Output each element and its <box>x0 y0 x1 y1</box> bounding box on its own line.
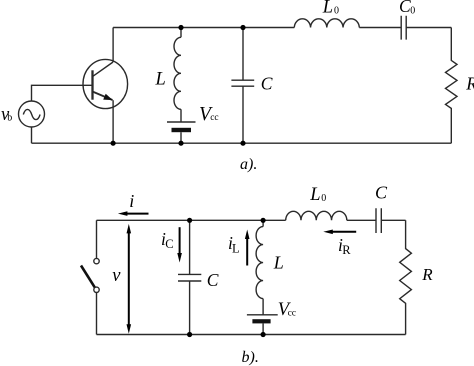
arrow iC (b) <box>179 227 181 254</box>
svg-text:C: C <box>165 237 173 251</box>
top rail left <box>113 27 294 29</box>
wire C branch top <box>242 28 244 81</box>
capacitor C0 plates <box>401 16 406 40</box>
capacitor C plates (a) <box>231 80 254 86</box>
top rail right <box>406 27 451 29</box>
svg-text:R: R <box>342 243 351 257</box>
top rail middle <box>359 27 401 29</box>
svg-text:cc: cc <box>288 308 296 318</box>
svg-text:cc: cc <box>210 113 218 123</box>
node dot bottom L (a) <box>178 141 183 146</box>
arrow v (b) double head <box>128 232 130 326</box>
svg-text:v: v <box>112 266 121 286</box>
arrow iR (b) <box>331 231 356 233</box>
top rail (b) middle <box>347 219 376 221</box>
node dot bottom C (b) <box>187 332 192 337</box>
svg-text:0: 0 <box>334 6 339 17</box>
svg-text:C: C <box>207 270 219 290</box>
wire battery to rail (b) <box>262 323 264 334</box>
arrows <box>118 211 356 333</box>
svg-text:C: C <box>261 74 273 94</box>
wire L branch (b) top <box>262 220 264 226</box>
wire C branch bottom <box>242 86 244 143</box>
inductor L (b) <box>256 227 263 299</box>
inductor L (a) <box>174 37 181 109</box>
source v_b <box>19 101 45 127</box>
node dot top L (b) <box>261 218 266 223</box>
transistor base bar <box>91 70 93 99</box>
svg-text:C: C <box>399 0 411 16</box>
node dot bottom C (a) <box>240 141 245 146</box>
svg-text:b: b <box>7 113 12 124</box>
svg-text:L: L <box>232 241 240 255</box>
capacitor C series plates (b) <box>376 208 381 233</box>
wire L to battery <box>180 109 182 122</box>
inductor L0 (a) <box>294 19 359 28</box>
svg-text:R: R <box>421 265 433 284</box>
top rail (b) left <box>97 219 286 221</box>
capacitor C plates (b) <box>178 274 201 281</box>
svg-text:a).: a). <box>240 156 257 173</box>
transistor Q1 <box>83 59 128 108</box>
svg-text:L: L <box>273 252 284 272</box>
battery Vcc thick plate (b) <box>252 319 270 323</box>
svg-text:L: L <box>155 70 166 90</box>
sine symbol in v_b <box>23 109 40 119</box>
switch upper contact <box>94 258 99 263</box>
resistor R (b) <box>400 220 412 334</box>
svg-text:0: 0 <box>321 193 326 204</box>
wire C branch (b) top <box>189 220 191 274</box>
inductor L0 (b) <box>286 211 347 220</box>
wire v_b top to base <box>32 85 93 101</box>
bottom rail (a) <box>32 142 452 144</box>
svg-text:C: C <box>375 183 388 203</box>
arrow iL (b) <box>246 238 248 266</box>
wire L to battery (b) <box>262 299 264 315</box>
svg-text:L: L <box>309 185 320 205</box>
wire switch to rail <box>96 293 98 335</box>
switch lever <box>81 266 95 288</box>
resistor R (a) <box>446 28 458 144</box>
svg-text:L: L <box>322 0 333 18</box>
svg-text:0: 0 <box>410 6 415 17</box>
wire v_b bottom to rail <box>31 127 33 143</box>
wire C branch (b) bottom <box>189 281 191 335</box>
node dot top C (a) <box>240 25 245 30</box>
collector wire <box>112 28 114 63</box>
svg-text:b).: b). <box>242 349 259 366</box>
switch lower contact <box>94 287 99 292</box>
battery Vcc thin plate (b) <box>247 314 278 316</box>
arrow i (b) <box>126 213 149 215</box>
emitter wire <box>112 100 114 143</box>
svg-text:i: i <box>129 191 134 211</box>
transistor emitter arrowhead <box>103 94 113 100</box>
bottom rail (b) <box>97 334 406 336</box>
battery Vcc thin plate (a) <box>167 121 196 123</box>
node dot top L (a) <box>178 25 183 30</box>
top rail (b) right <box>381 219 405 221</box>
wire battery to rail <box>180 132 182 143</box>
node dot bottom L (b) <box>261 332 266 337</box>
battery Vcc thick plate (a) <box>172 128 192 132</box>
transistor collector diagonal <box>93 62 114 77</box>
left wire to switch <box>96 220 98 258</box>
node dot emitter bottom (a) <box>111 141 116 146</box>
svg-text:R: R <box>465 74 474 94</box>
transistor emitter diagonal <box>93 92 113 100</box>
wire L branch top <box>180 28 182 38</box>
node dot top C (b) <box>187 218 192 223</box>
